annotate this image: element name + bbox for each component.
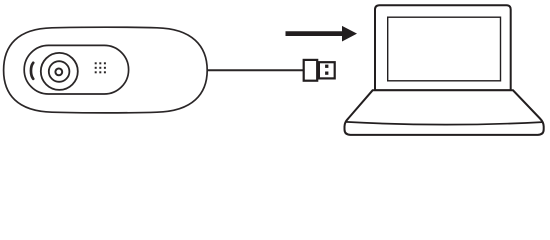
webcam face pill: [24, 45, 128, 94]
arrow: [286, 26, 358, 42]
laptop screen bezel: [375, 5, 511, 90]
USB plug body: [304, 60, 318, 81]
webcam body: [4, 27, 208, 113]
wire (USB cable from webcam to plug): [205, 69, 303, 71]
indicator arc: [31, 63, 33, 79]
lens inner ring: [55, 69, 62, 76]
lens middle circle: [49, 61, 70, 82]
laptop base: [345, 90, 544, 135]
USB contact holes: [325, 65, 328, 68]
laptop front edge crease: [346, 122, 542, 125]
laptop display: [388, 17, 501, 81]
lens outer circle: [41, 53, 78, 90]
microphone dots 3x3: [95, 62, 106, 73]
USB plug tip: [319, 62, 335, 78]
